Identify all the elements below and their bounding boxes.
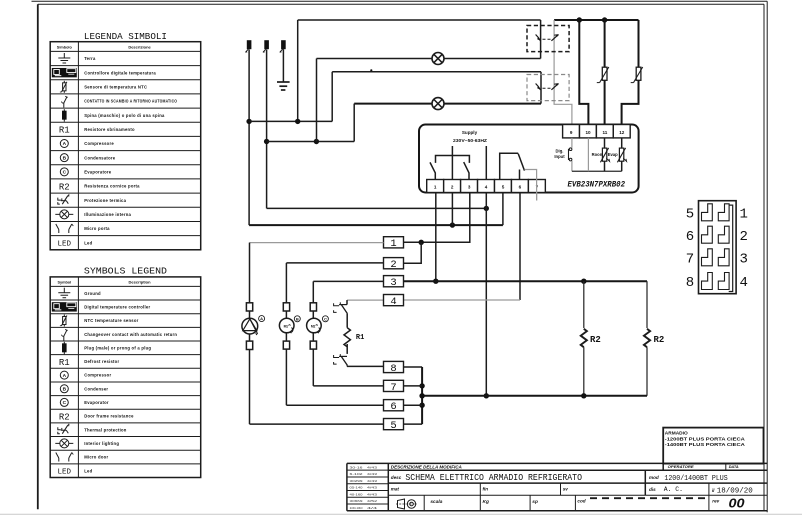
svg-text:M1: M1 [311,324,316,328]
door frame resistor R2b [646,281,648,328]
controller internal wire terminal9 to dig input [571,138,573,148]
svg-text:Condensatore: Condensatore [84,155,116,160]
svg-text:LEGENDA SIMBOLI: LEGENDA SIMBOLI [84,31,167,42]
svg-text:R2: R2 [59,182,70,192]
OPERATORE DATA row [662,463,664,470]
wire y72 to door switch 2 [332,71,541,73]
wire evap NTC top [638,20,640,67]
controller terminal 1 [427,180,444,193]
wire pin4 to terminal6 riser (light) [404,299,521,301]
svg-text:Micro door: Micro door [84,455,108,460]
wire evap NTC to terminal 12 [622,80,639,125]
wire pin7 to bus [404,385,423,387]
wire evaporator fan top [312,281,314,302]
condenser fan label B [294,316,300,322]
svg-text:Evaporator: Evaporator [84,400,109,405]
junction pin1 wire branch [419,240,424,245]
title block row lines [388,469,767,471]
junction bus/pin7 [419,383,424,388]
svg-text:18/09/20: 18/09/20 [717,487,753,495]
svg-text:Led: Led [84,240,92,245]
legend circled C symbol [60,168,68,176]
svg-text:Door frame resistance: Door frame resistance [84,414,134,419]
svg-text:5: 5 [390,420,396,432]
connector J1 pin 5 (left) [702,204,713,221]
wire terminal2 down [451,193,453,226]
svg-text:Compressor: Compressor [84,373,111,378]
svg-text:R2: R2 [59,412,70,422]
connector J1 inner bracket [729,205,733,291]
wire N horizontal to terminal4 [267,207,487,209]
controller internal wire terminal11 [604,138,606,148]
junction R2a bottom [581,393,586,398]
stray mark on wire [370,69,372,71]
Kg label [479,495,481,511]
wire N: plug P2 down [266,50,268,209]
wire [312,333,314,341]
svg-text:6-102: 6-102 [350,472,364,476]
wire pin3 to evaporator fan [313,280,383,282]
wire evaporator fan bottom to pin7 [312,349,314,386]
wire condenser fan bottom to pin6 [285,349,287,405]
condenser fan plug pole bottom [283,341,289,349]
svg-text:sp: sp [532,500,538,505]
svg-text:Ground: Ground [84,291,101,296]
wire terminal6 down [519,193,521,301]
svg-text:05-140: 05-140 [350,486,364,490]
junction on wire N at y141 [264,139,269,144]
svg-text:R1: R1 [59,358,70,368]
svg-text:Resistore sbrinamento: Resistore sbrinamento [84,127,135,132]
svg-text:-1400BT PLUS PORTA CIECA: -1400BT PLUS PORTA CIECA [665,442,746,447]
connector J1 pin 4 (right) [718,273,729,290]
plug pole P1 [247,40,252,49]
svg-text:2: 2 [740,229,748,245]
svg-text:4/52: 4/52 [367,499,378,503]
svg-text:B: B [296,316,299,321]
controller changeover relay arm [518,154,524,171]
svg-text:2: 2 [390,259,396,271]
svg-text:Resistenza cornice porta: Resistenza cornice porta [84,184,140,189]
legend micro door symbol [56,224,59,230]
controller changeover relay contact to terminal6 [519,170,521,180]
wire terminal4 down [485,193,487,396]
controller terminal 3 [461,180,478,193]
wire L horizontal to controller supply [249,224,503,226]
door micro-switch S1 right contact [551,35,558,41]
wire connector pin3 to R2 resistors (thick) [404,280,648,282]
svg-text:A: A [260,316,263,321]
door micro-switch S1 link [543,38,552,40]
legend-eng table frame [50,277,201,478]
svg-text:Descrizione: Descrizione [128,44,151,49]
wire bus y121 [249,120,332,122]
connector J1 pin 7 (left) [702,249,713,266]
wire [285,311,287,318]
svg-text:Illuminazione interna: Illuminazione interna [84,212,131,217]
top wire B y20 (thick) [554,19,638,21]
svg-text:Kg: Kg [483,499,489,505]
wire R1 chain bottom to pin8 [346,365,348,366]
junction riser x298 on y121 [295,119,300,124]
compressor plug pole top [246,303,252,311]
wire compressor top [249,243,251,303]
svg-text:11: 11 [602,130,607,135]
bottom return wire (thick) [422,395,647,397]
svg-text:A. C.: A. C. [664,486,683,493]
legend changeover contact symbol [63,103,65,108]
svg-text:R1: R1 [59,126,70,136]
svg-text:R2: R2 [590,335,601,345]
wire terminal7 stub (light) [536,193,538,201]
connector J1 pin 2 (right) [718,226,729,243]
svg-text:Terra: Terra [84,56,96,61]
svg-text:Led: Led [84,468,92,473]
sheet inner frame top [38,3,764,5]
connector pin box 5 [384,419,404,430]
wire door switch 2 left pin drop [540,72,542,104]
sheet outer right border [766,1,768,512]
wire compressor bottom to pin5 [249,350,251,425]
svg-text:rev: rev [712,499,719,504]
svg-text:5: 5 [502,185,505,190]
svg-text:Compressore: Compressore [84,141,114,146]
wire [285,333,287,341]
connector pin box 7 [384,380,404,391]
controller digital input contacts [568,149,570,160]
condenser fan plug pole top [283,303,289,311]
sheet outer top border [32,0,768,2]
legend circled B symbol [60,385,68,393]
scala label [423,495,425,511]
junction bus/return wire [419,393,424,398]
svg-text:Evap: Evap [608,152,618,157]
controller internal common rail [572,170,622,172]
svg-text:fin: fin [483,486,489,491]
wire pin5 to bus [404,423,423,425]
wire pin8 to bus [404,366,423,368]
connector pins 5-8 bus [421,367,423,424]
title block frame [347,462,767,464]
svg-text:1: 1 [434,185,437,190]
legend NTC sensor symbol [63,81,65,93]
svg-text:Description: Description [129,279,152,284]
svg-text:M1: M1 [284,324,289,328]
legend plug symbol [63,342,65,355]
wire [346,344,348,354]
wire pin2 to condenser fan [286,262,383,264]
svg-text:Supply: Supply [462,130,478,135]
legend micro door symbol [56,453,59,459]
evaporator fan label C [322,316,328,322]
svg-text:40-160: 40-160 [350,492,364,496]
svg-text:C: C [63,400,67,406]
wire pin1 to compressor (light) [250,242,384,244]
connector J1 pin 6 (left) [702,226,713,243]
svg-text:4/43: 4/43 [367,465,378,469]
svg-text:B: B [63,155,67,161]
controller evap NTC input [619,148,623,161]
controller terminal 2 [444,180,461,193]
svg-text:1: 1 [390,238,396,250]
junction on wire L at y121 [246,119,251,124]
svg-text:4/43: 4/43 [367,472,378,476]
svg-text:Digital temperature controller: Digital temperature controller [84,304,150,309]
svg-text:1: 1 [740,206,748,222]
svg-text:8: 8 [686,275,694,291]
ARMADIO box [663,428,763,464]
svg-text:DATA: DATA [729,465,739,469]
wire [312,311,314,318]
svg-text:mod: mod [649,475,659,480]
controller relay contacts K1 rail [436,156,470,163]
legend changeover contact symbol [63,336,65,341]
svg-text:dis: dis [649,487,656,492]
wire plug P3 to ground [282,49,284,82]
connector J1 pin 3 (right) [718,249,729,266]
plug pole P3 [281,40,286,49]
cod label [574,495,576,511]
controller terminal 6 [511,180,528,193]
svg-text:A: A [63,141,67,147]
svg-text:Changeover contact with automa: Changeover contact with automatic return [84,332,177,337]
svg-text:Interior lighting: Interior lighting [84,441,119,446]
svg-text:R1: R1 [356,334,364,342]
controller terminal 9 [563,125,580,138]
svg-text:Input: Input [554,154,565,159]
controller relay contact to terminal3 [464,162,469,179]
cod dashed value line [590,497,707,499]
svg-text:4: 4 [390,296,396,308]
svg-text:3: 3 [390,277,396,289]
svg-text:3: 3 [740,251,748,267]
svg-text:Condenser: Condenser [84,386,108,391]
svg-text:2: 2 [451,185,454,190]
wire [249,311,251,318]
legend NTC sensor symbol [63,315,65,327]
svg-text:100-340: 100-340 [350,506,363,510]
svg-text:A: A [63,373,67,379]
connector pin box 2 [384,258,404,269]
svg-text:Protezione termica: Protezione termica [84,198,126,203]
controller terminal 7 [528,180,545,193]
svg-text:LED: LED [58,468,72,476]
svg-text:DESCRIZIONE DELLA MODIFICA: DESCRIZIONE DELLA MODIFICA [391,465,462,470]
junction terminal1 / connector pin3 wire [433,279,438,284]
junction wire N / terminal4 [484,206,489,211]
svg-text:CONTATTO IN SCAMBIO A RITORNO: CONTATTO IN SCAMBIO A RITORNO AUTOMATICO [84,99,177,104]
svg-text:sv: sv [563,486,569,491]
svg-text:8: 8 [390,363,396,375]
svg-text:6: 6 [390,401,396,413]
svg-text:9: 9 [570,130,573,135]
door micro-switch S2 enclosure (dashed) [527,75,569,101]
door micro-switch S1 left contact [536,35,541,41]
controller relay contact to terminal1 [430,162,435,179]
svg-text:30669: 30669 [350,499,364,503]
legend-ita table frame [50,42,201,250]
door micro-switch S2 left contact [536,84,541,90]
il date cell [708,483,710,511]
wire [346,314,348,328]
title block revision column [387,463,389,510]
junction room sensor riser on wire B [602,17,607,22]
controller internal wire terminal4 supply [485,146,487,180]
svg-text:SCHEMA ELETTRICO ARMADIO REFRI: SCHEMA ELETTRICO ARMADIO REFRIGERATO [405,472,582,483]
controller terminal 4 [478,180,495,193]
evap NTC sensor (external) [636,67,641,80]
junction R2a top [581,279,586,284]
svg-text:10: 10 [585,130,591,135]
legend circled B symbol [60,154,68,162]
controller terminal 5 [495,180,512,193]
sheet inner frame right [763,4,765,511]
svg-text:4/4: 4/4 [367,506,378,510]
connector pin box 4 [384,295,404,306]
svg-text:6: 6 [519,185,522,190]
svg-text:C: C [324,316,327,321]
interior lamp E1 [432,53,444,65]
junction bus/pin6 [419,403,424,408]
legend interior lighting symbol [55,213,60,215]
svg-text:12: 12 [619,130,625,135]
fin label [479,483,481,495]
svg-text:mat: mat [391,486,400,491]
wire door-switch common (gray) to terminal 9 [554,20,572,126]
wire terminal1 down [435,193,437,282]
junction terminal10 riser on wire B [577,17,582,22]
legend digital controller symbol [52,68,77,77]
controller terminal 11 [596,125,613,138]
compressor plug pole bottom [246,341,252,349]
connector pin box 3 [384,276,404,287]
wire lamp1 return riser [316,59,318,142]
svg-text:00: 00 [729,496,746,511]
legend digital controller symbol [52,302,77,311]
door micro-switch S2 link [543,87,552,89]
wire room NTC to terminal 11 [604,80,606,125]
door frame resistor R2a [583,281,585,328]
svg-text:4/43: 4/43 [367,486,378,490]
wire room NTC top [604,20,606,67]
compressor label A [259,316,265,322]
svg-text:cod: cod [577,499,585,504]
svg-text:OPERATORE: OPERATORE [668,465,695,469]
svg-text:Defrost resistor: Defrost resistor [84,359,119,364]
legend plug symbol [63,109,65,122]
controller internal wire terminal12 [621,138,623,148]
svg-text:30299: 30299 [350,479,364,483]
svg-text:3: 3 [468,185,471,190]
svg-text:1200/1400BT PLUS: 1200/1400BT PLUS [664,475,727,483]
svg-text:7: 7 [390,382,396,394]
wire pin6 to bus [404,404,423,406]
wire box4 left to R1 chain [347,299,384,301]
wire riser x332 to y72 [331,72,333,122]
condenser fan motor B [279,318,294,333]
svg-text:SYMBOLS LEGEND: SYMBOLS LEGEND [84,266,168,277]
legend ground symbol [63,53,65,58]
wire branch to pin2 box [404,242,422,263]
svg-text:Dig.: Dig. [556,148,564,153]
sp label [529,495,531,511]
svg-text:4: 4 [740,275,748,291]
title block column line desc/mod [644,470,646,495]
svg-text:Controllore digitale temperatu: Controllore digitale temperatura [84,70,156,75]
legend ground symbol [63,288,65,293]
evaporator fan plug pole top [310,303,316,311]
svg-text:EVB23N7PXRB02: EVB23N7PXRB02 [568,180,626,189]
wire door switch 1 left pin drop [540,20,542,59]
connector pin box 8 [384,361,404,372]
legend thermal protection symbol [58,198,61,201]
top wire A y20 [298,19,541,21]
wire terminal5 drop [502,193,504,226]
svg-text:4: 4 [485,185,488,190]
svg-text:4/43: 4/43 [367,492,378,496]
wire lamp2 return riser [353,104,355,142]
connector J1 pin 8 (left) [702,273,713,290]
connector J1 pin 1 (right) [718,204,729,221]
sv label [560,483,562,495]
legend thermal protection symbol [58,427,61,430]
svg-text:NTC temperature sensor: NTC temperature sensor [84,318,138,323]
legend circled A symbol [60,140,68,148]
svg-text:5: 5 [686,206,694,222]
svg-text:-1200BT PLUS PORTA CIECA: -1200BT PLUS PORTA CIECA [665,436,746,441]
controller internal wire terminal2 supply [451,146,453,180]
connector pin box 1 [384,237,404,248]
plug pole P2 [264,40,269,49]
controller changeover relay contact to terminal7 (light) [525,170,537,201]
svg-text:R2: R2 [654,335,665,345]
svg-text:4/43: 4/43 [367,479,378,483]
sheet inner frame left [37,4,39,509]
junction wire L / terminal2 branch [450,222,455,227]
wire lamp1 feed [317,58,541,60]
svg-text:Micro porta: Micro porta [84,226,110,231]
wire terminal3 down to pin1 wire [404,193,470,243]
controller internal wire terminal10 to rail [587,138,589,171]
svg-text:230V~50-63HZ: 230V~50-63HZ [453,138,487,143]
controller EVB23N7PXRB02 outline [419,125,639,193]
wire riser x298 to top wire A [297,20,299,121]
svg-text:LED: LED [58,240,72,248]
svg-text:Sensore di temperatura NTC: Sensore di temperatura NTC [84,84,147,89]
legend circled A symbol [60,371,68,379]
svg-text:Simbolo: Simbolo [57,45,73,49]
compressor A [242,318,258,334]
legend interior lighting symbol [55,442,60,444]
thermal protection top [339,304,347,306]
wire [249,334,251,341]
controller changeover relay common from terminal5 [500,153,519,179]
wire condenser fan top [285,263,287,303]
defrost resistor R1 [344,328,350,347]
svg-text:C: C [63,170,67,176]
page bottom edge [0,513,802,515]
svg-text:B: B [63,386,67,392]
svg-text:7: 7 [686,251,694,267]
junction lamp1 return on y141 [314,139,319,144]
controller room NTC input [602,148,606,161]
evaporator fan motor C [307,318,322,333]
room NTC sensor (external) [602,67,607,80]
legend circled C symbol [60,398,68,406]
wire lamp2 feed (thick) [354,103,541,105]
interior lamp E2 [432,98,444,110]
connector J1 body [699,201,737,294]
